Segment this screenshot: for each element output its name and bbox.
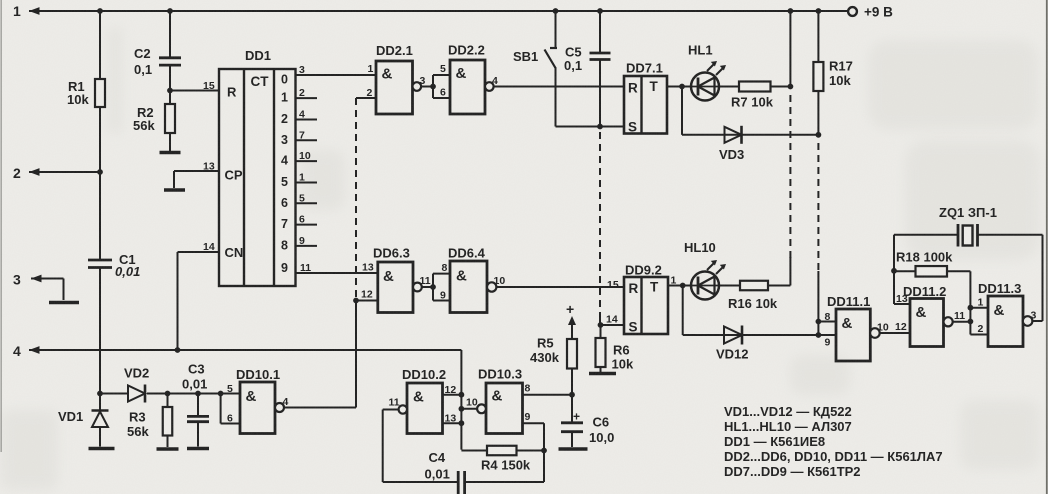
wire DD11.1 pin8 stub [818, 321, 836, 323]
gate DD10.1 [220, 394, 222, 424]
terminal +9V circle [848, 7, 857, 16]
resistor R17 10k [817, 11, 819, 62]
diode VD3 [725, 127, 742, 143]
DD6.3 output circle pin11 [413, 283, 422, 292]
gate DD11.3 [988, 296, 1023, 347]
wire DD10.2 pin12 stub [443, 394, 462, 396]
node VD1/VD2 [97, 391, 103, 397]
wire DD2.2 out to DD7.1 R [494, 86, 624, 88]
scan artifact: page edge lines [0, 0, 2, 452]
wire DD9.2 output to HL10 [668, 285, 692, 287]
counter DD1 K561IE8 box [219, 69, 296, 286]
ground under VD1 [89, 447, 115, 451]
resistor R3 56k [167, 394, 169, 408]
resistor R4 150k [461, 450, 487, 452]
terminal 4 arrow [29, 346, 40, 354]
ground under R2 [160, 151, 181, 155]
DD10.1 output circle pin4 [275, 403, 284, 412]
capacitor C5 [599, 11, 601, 53]
capacitor C1 [88, 259, 112, 262]
dashed wire S line down to DD9.2 S [599, 132, 601, 322]
wire ZQ1 left branch [893, 235, 895, 304]
wire DD11.3 out to ZQ1 right [1032, 320, 1042, 322]
wire DD10.3 pin8 to R5 node [523, 394, 573, 396]
diode VD2 [100, 393, 128, 395]
wire HL1 node down to VD3 [681, 87, 683, 135]
DD10.3 input circle pin10 [477, 404, 486, 413]
gate DD2.1 [376, 61, 413, 114]
dashed wire repeated cells column2 [817, 143, 819, 273]
ground under C3 [187, 447, 209, 451]
capacitor C6 10,0 electrolytic [571, 395, 573, 423]
ground at CP [164, 188, 185, 192]
wire DD10.1 out up to DD6.3 pin12 node [284, 407, 356, 409]
wire to R16 corner [789, 257, 791, 286]
wire C2 top [169, 11, 171, 58]
DD11.1 output circle pin10 [870, 328, 880, 338]
gate DD6.4 [450, 261, 487, 313]
diode VD1 [99, 394, 101, 411]
wire VD2 to DD10.1 inputs [147, 393, 240, 395]
wire DD7.1 output to HL1 [667, 86, 692, 88]
DD10.2 output circle pin11 [399, 405, 407, 413]
wire DD11.2 pin13 stub [894, 303, 910, 305]
wire DD11.1 out to DD11.2 pin12 [880, 332, 910, 334]
ground under R6 [589, 372, 616, 376]
wire R18 right down to DD11.3 inputs [969, 271, 971, 334]
terminal 2 arrow [29, 168, 40, 176]
wire terminal3 [31, 278, 64, 280]
wire +9V down to R7 node [789, 11, 791, 87]
resistor R7 10k [719, 86, 739, 88]
wire DD6.3 out to DD6.4 inputs [422, 286, 433, 288]
wire node2 to C1 [99, 172, 101, 260]
wire HL10 node down to VD12 [682, 286, 684, 336]
gate DD10.3 [486, 383, 523, 434]
wire DD2.1 out to DD2.2 inputs [421, 86, 433, 88]
DD11.2 output circle pin11 [944, 317, 953, 326]
wire R1 to node2 [99, 107, 101, 172]
gate DD2.2 [450, 60, 485, 114]
scan artifact: paper noise overlay [0, 0, 1, 1]
resistor R18 100k [894, 270, 916, 272]
DD6.4 output circle pin10 [487, 282, 496, 291]
wire C2 to R2 node [169, 65, 171, 90]
trigger DD9.2 K561TR2 [624, 277, 668, 334]
wire 4 corner down to oscillator node [460, 350, 462, 450]
capacitor C4 0,01 [383, 481, 459, 483]
capacitor C2 [159, 56, 181, 59]
wire down to DD11.1 inputs [817, 271, 819, 335]
wire DD10.2 pin13 stub [443, 422, 462, 424]
wire terminal2 to node [29, 171, 100, 173]
wire 4 horizontal [29, 349, 461, 351]
wire SB1 to S inputs [556, 126, 625, 128]
LED HL1 [691, 73, 719, 101]
terminal 1 arrow [29, 7, 40, 15]
wire DD9.2 S input [601, 324, 625, 326]
wire DD10.3 pin9 to R4 right [523, 422, 545, 424]
wire DD6.4 out to DD9.2 R [496, 286, 624, 288]
wire DD10.2 out left and down [383, 409, 399, 411]
wire pin15 to DD1 R input [170, 90, 219, 92]
gate DD10.2 [407, 383, 443, 434]
wire C1 down to VD1 node [99, 268, 101, 394]
quartz ZQ1 ZP-1 [894, 234, 958, 236]
dashed wire repeated cells column1 [789, 95, 791, 258]
switch SB1 [555, 11, 557, 48]
trigger DD7.1 K561TR2 [624, 76, 667, 134]
wire R2 to ground [169, 133, 171, 151]
gate DD11.2 [910, 299, 944, 347]
wire DD11.3 pin1 stub [970, 307, 988, 309]
DD11.3 output circle pin3 [1023, 316, 1033, 326]
terminal 3 arrow [31, 275, 42, 283]
ground under C6 [559, 447, 588, 451]
wire DD1 CP pin13 to ground [174, 170, 219, 172]
ground under R3 [157, 447, 179, 451]
wire R1 top [99, 11, 101, 79]
DD2.1 output circle pin3 [413, 82, 422, 91]
gate DD11.1 [836, 309, 870, 361]
dashed wire DD2.1 pin2 down to DD6.3 pin12 node [355, 98, 357, 301]
wire DD11.3 pin2 stub [970, 334, 988, 336]
capacitor C3 0,01 [197, 394, 199, 417]
resistor R1 [95, 79, 105, 107]
LED HL10 [691, 272, 719, 300]
wire DD6.3 pin12 from node [356, 300, 378, 302]
node +9V rail (top wire) [29, 10, 848, 12]
wire DD11.2 out junction [953, 321, 971, 323]
DD2.2 output circle pin4 [485, 82, 494, 91]
diode VD12 [724, 327, 742, 344]
ground at terminal 3 [49, 301, 79, 305]
resistor R2 [169, 91, 171, 105]
resistor R6 10k [600, 325, 602, 338]
wire DD2.1 pin2 from dashed node [356, 97, 376, 99]
wire DD1 CN pin14 to wire4 [178, 251, 220, 253]
resistor R16 10k [719, 285, 740, 287]
